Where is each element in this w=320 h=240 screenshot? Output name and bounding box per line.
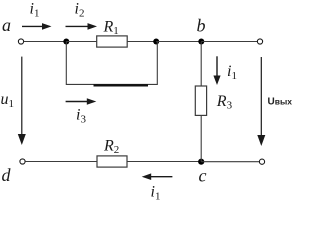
terminal d	[20, 159, 25, 164]
svg-text:i2: i2	[75, 1, 85, 20]
wire R3 to node c	[200, 115, 202, 161]
wire R2 to node c	[127, 161, 201, 163]
terminal a	[18, 39, 23, 44]
wire d to R2	[25, 161, 97, 163]
svg-text:i3: i3	[76, 107, 86, 126]
junction node c	[198, 159, 204, 165]
wire node A to R1	[66, 41, 96, 43]
svg-text:d: d	[2, 165, 12, 185]
svg-text:c: c	[199, 166, 207, 186]
svg-text:R1: R1	[103, 19, 119, 38]
output terminal top	[257, 39, 262, 44]
current arrow i2	[66, 23, 98, 30]
wire node c to output terminal bottom	[201, 161, 259, 163]
resistor R1	[97, 36, 128, 47]
svg-text:R3: R3	[216, 93, 233, 112]
wire node b to R3	[200, 42, 202, 87]
svg-text:b: b	[197, 16, 206, 36]
output terminal bottom	[259, 159, 264, 164]
current arrow i1 (bottom, leftward)	[142, 173, 173, 180]
wire node b to output terminal top	[201, 41, 257, 43]
junction node b	[198, 39, 204, 45]
svg-text:R2: R2	[103, 138, 119, 157]
svg-text:Uвых: Uвых	[268, 97, 293, 108]
junction node A	[63, 39, 69, 45]
resistor R3	[195, 86, 206, 115]
svg-text:i1: i1	[151, 184, 161, 203]
wire node B to node b	[156, 41, 201, 43]
voltage arrow Uvyh (output voltage)	[257, 57, 265, 146]
current arrow i1 (through R3)	[213, 56, 220, 85]
wire a to node A	[24, 41, 66, 43]
voltage arrow u1	[18, 57, 26, 145]
junction node B	[153, 39, 159, 45]
svg-text:u1: u1	[1, 91, 15, 110]
short-circuit loop wire around R1	[66, 42, 157, 85]
current arrow i1 (top left)	[22, 23, 52, 30]
svg-text:i1: i1	[30, 1, 40, 20]
wire R1 to node B	[127, 41, 156, 43]
resistor R2	[97, 156, 127, 167]
current arrow i3	[66, 98, 97, 105]
svg-text:i1: i1	[227, 63, 237, 82]
thick wire segment on loop bottom	[94, 84, 149, 86]
svg-text:a: a	[2, 15, 11, 35]
